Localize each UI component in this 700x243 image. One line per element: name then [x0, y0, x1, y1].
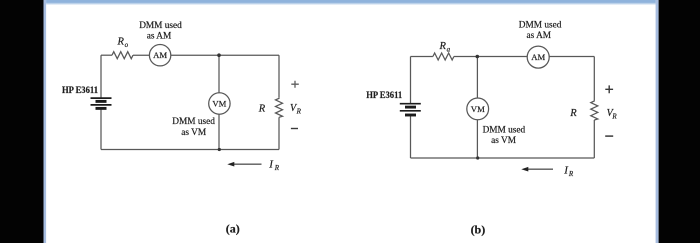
svg-text:o: o: [125, 41, 129, 49]
svg-text:HP E3611: HP E3611: [366, 91, 402, 101]
svg-text:R: R: [274, 164, 280, 172]
svg-text:R: R: [117, 36, 125, 47]
svg-text:VM: VM: [212, 99, 226, 109]
svg-text:R: R: [611, 113, 617, 121]
svg-text:DMM used: DMM used: [172, 117, 215, 127]
svg-text:R: R: [569, 108, 577, 119]
svg-text:a: a: [447, 45, 451, 53]
svg-text:R: R: [439, 41, 447, 52]
svg-text:AM: AM: [153, 50, 167, 60]
svg-text:as VM: as VM: [181, 128, 206, 138]
svg-text:HP E3611: HP E3611: [62, 86, 98, 96]
svg-text:(b): (b): [471, 222, 486, 236]
svg-text:AM: AM: [531, 52, 545, 62]
svg-text:as AM: as AM: [527, 31, 552, 41]
svg-text:as VM: as VM: [491, 136, 516, 146]
svg-text:DMM used: DMM used: [483, 125, 526, 135]
svg-text:as AM: as AM: [147, 31, 172, 41]
svg-text:R: R: [296, 107, 302, 115]
svg-text:VM: VM: [471, 104, 485, 114]
svg-text:DMM used: DMM used: [519, 20, 562, 30]
svg-text:R: R: [258, 103, 266, 114]
svg-text:DMM used: DMM used: [139, 21, 182, 31]
svg-text:(a): (a): [226, 222, 240, 236]
svg-text:R: R: [568, 170, 574, 178]
